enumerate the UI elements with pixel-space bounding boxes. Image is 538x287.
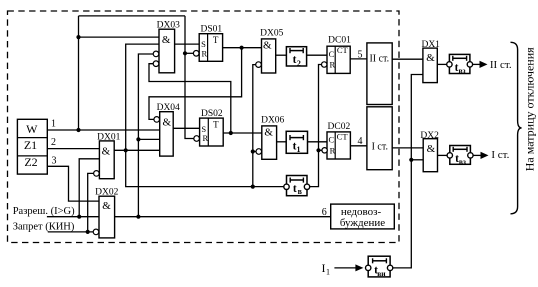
svg-text:3: 3: [52, 155, 57, 166]
wire Z2 to DX02 input 1: [47, 166, 99, 201]
svg-text:&: &: [162, 34, 171, 46]
wire branch to DX03 input 1: [79, 36, 160, 38]
and-gate DX05: [256, 29, 284, 73]
svg-text:в: в: [298, 187, 303, 196]
junction at DS02 output: [229, 131, 233, 135]
wire t_vz lower output arrow line I: [473, 154, 481, 156]
wire t_vz output arrow line II: [473, 63, 481, 65]
wire DX02 output to underexcitation box: [115, 216, 331, 218]
delay element t_vi (bottom, I1 path): [366, 256, 393, 277]
wire DX03 output to DS01 S: [175, 43, 200, 45]
wire Zapret to DX02 inverted input: [48, 231, 93, 233]
svg-text:1: 1: [326, 268, 330, 277]
svg-text:4: 4: [358, 136, 363, 147]
stage box II st.: [367, 43, 392, 105]
wire Z1 to DX01: [47, 148, 99, 150]
svg-text:1: 1: [297, 145, 301, 154]
svg-text:2: 2: [51, 137, 56, 148]
junction on reset rail at DS01 R: [183, 51, 187, 55]
svg-text:&: &: [263, 39, 272, 51]
flip-flop DS01: [193, 25, 222, 62]
wire DX06 output to t1: [277, 141, 287, 143]
flip-flop DS02: [194, 109, 223, 146]
svg-text:Z1: Z1: [24, 138, 37, 152]
svg-text:буждение: буждение: [340, 217, 385, 229]
junction on DX02 output wire: [136, 215, 140, 219]
svg-text:II ст.: II ст.: [490, 59, 512, 71]
junction on Razresh wire: [77, 215, 81, 219]
svg-text:t: t: [293, 183, 297, 195]
arrowhead I1 input: [355, 264, 363, 271]
wire branch to DX06 inverted input: [253, 151, 256, 153]
svg-text:DC01: DC01: [328, 36, 351, 46]
svg-text:2: 2: [297, 59, 301, 68]
svg-text:R: R: [329, 59, 335, 69]
junction at DX04 input 3 branch: [136, 137, 140, 141]
junction on t_vi riser at DX2 branch: [409, 158, 413, 162]
svg-text:R: R: [330, 145, 336, 155]
wire DS02 output to DX06 input 1: [223, 132, 262, 134]
wire branch to DS01 R: [185, 52, 194, 54]
wire DX01 output branch up to DX03 input 2: [126, 44, 159, 150]
and-gate DX2: [420, 131, 439, 172]
and-gate DX02: [93, 187, 118, 238]
wire W output to DX04 input 2: [47, 129, 159, 131]
svg-text:1: 1: [51, 118, 56, 129]
wire DS01 output cross-couple to DX04 inverted input: [149, 48, 242, 120]
svg-text:На матрицу отключения: На матрицу отключения: [523, 47, 537, 171]
svg-text:&: &: [426, 52, 435, 64]
underexcitation box: [331, 204, 395, 229]
svg-text:T: T: [213, 35, 219, 45]
svg-text:&: &: [264, 126, 273, 138]
svg-text:&: &: [102, 146, 111, 158]
junction on Zapret wire: [86, 230, 90, 234]
wire DX02 output riser to DX03 inverted input 1: [138, 54, 153, 217]
svg-text:CT: CT: [337, 45, 349, 55]
svg-text:вз: вз: [459, 157, 466, 166]
dashed enclosure border: [8, 11, 400, 243]
wire top rail: [79, 15, 186, 17]
wire II stage box output to DX1: [392, 58, 423, 60]
svg-text:&: &: [427, 143, 436, 155]
wire branch to DC02 R: [319, 149, 322, 151]
junction on t_v riser at DC02 R: [316, 148, 320, 152]
svg-text:вз: вз: [458, 66, 465, 75]
svg-text:R: R: [202, 133, 208, 143]
svg-text:6: 6: [322, 207, 327, 218]
delay element t_vz (lower): [447, 146, 473, 165]
wire DX2 output to t_vz lower: [438, 154, 448, 156]
input box W/Z1/Z2: [17, 119, 47, 174]
delay element t_v: [284, 176, 310, 196]
junction at t_v input wire: [251, 185, 255, 189]
junction at DX01 output: [124, 148, 128, 152]
svg-text:Разреш. (I>G): Разреш. (I>G): [13, 206, 75, 217]
svg-text:W: W: [26, 122, 38, 136]
wire Razresh to DX02 input 2: [47, 216, 99, 218]
svg-text:ви: ви: [377, 269, 386, 278]
junction on DX05/DX06 riser: [251, 149, 255, 153]
wire DX01 output to DX04 input 4: [114, 149, 160, 151]
stage box I st.: [367, 107, 392, 170]
junction at W riser top branch: [76, 35, 80, 39]
svg-text:II ст.: II ст.: [369, 54, 389, 65]
svg-text:I ст.: I ст.: [372, 141, 388, 152]
wire t1 output to DC02 C: [308, 141, 328, 143]
wire DS02 output feedback to DX03 inverted input 2: [149, 64, 231, 133]
wire W riser to top rail: [78, 16, 80, 130]
and-gate DX04: [154, 103, 180, 156]
and-gate DX06: [256, 116, 285, 160]
junction on W wire: [76, 128, 80, 132]
junction at DS01 output: [240, 46, 244, 50]
svg-text:&: &: [163, 116, 172, 128]
wire DX05 output to t2: [276, 54, 287, 56]
wire t2 output to DC01 C: [307, 54, 327, 56]
svg-text:DX06: DX06: [261, 116, 284, 126]
svg-text:&: &: [102, 200, 111, 212]
and-gate DX1: [421, 40, 440, 83]
wire DC02 output to I stage box: [350, 145, 367, 147]
wire I1 to t_vi: [334, 267, 356, 269]
wire t_vi output riser to DX1 input 2: [393, 75, 423, 268]
arrowhead II st. output: [480, 61, 488, 68]
wire DX04 output to DS02 S: [173, 127, 199, 129]
wire t_v output riser to DC01 R and DC02 R: [310, 65, 322, 187]
svg-text:DX05: DX05: [260, 29, 283, 39]
wire riser to DX05/DX06 inverted inputs: [253, 65, 256, 187]
svg-text:Запрет (КИН): Запрет (КИН): [13, 221, 75, 232]
arrowhead I st. output: [481, 152, 489, 159]
svg-text:C: C: [329, 49, 335, 59]
and-gate DX03: [153, 21, 180, 73]
wire I stage box output to DX2: [392, 147, 423, 149]
svg-text:DS02: DS02: [201, 109, 223, 119]
and-gate DX01: [94, 132, 121, 178]
counter DC02: [322, 122, 351, 159]
wire Zapret branch to DX01 inverted input: [88, 173, 94, 232]
svg-text:I ст.: I ст.: [491, 149, 509, 161]
counter DC01: [322, 36, 352, 74]
wire reset rail down to DS02 R: [185, 16, 194, 139]
curly brace: [511, 42, 522, 214]
svg-text:5: 5: [358, 49, 363, 60]
wire branch to DX04 input 3: [138, 138, 159, 140]
wire DS01 output to DX05 input 1: [223, 47, 262, 49]
delay element t2: [286, 47, 306, 66]
wire DX01 output branch down to t_v input: [126, 150, 284, 186]
delay element t1: [286, 131, 307, 153]
delay element t_vz (upper): [447, 54, 473, 73]
svg-text:C: C: [328, 134, 334, 144]
svg-text:DC02: DC02: [328, 122, 351, 132]
wire DX1 output to t_vz: [437, 63, 446, 65]
svg-text:Z2: Z2: [24, 155, 37, 169]
svg-text:R: R: [201, 49, 207, 59]
wire Razresh branch to DX01 input 2: [79, 159, 99, 217]
svg-text:T: T: [213, 120, 219, 130]
svg-text:CT: CT: [337, 132, 349, 142]
svg-text:I: I: [322, 261, 326, 275]
wire DC01 output to II stage box: [350, 58, 367, 60]
wire branch to DX2 input 2: [411, 159, 423, 161]
